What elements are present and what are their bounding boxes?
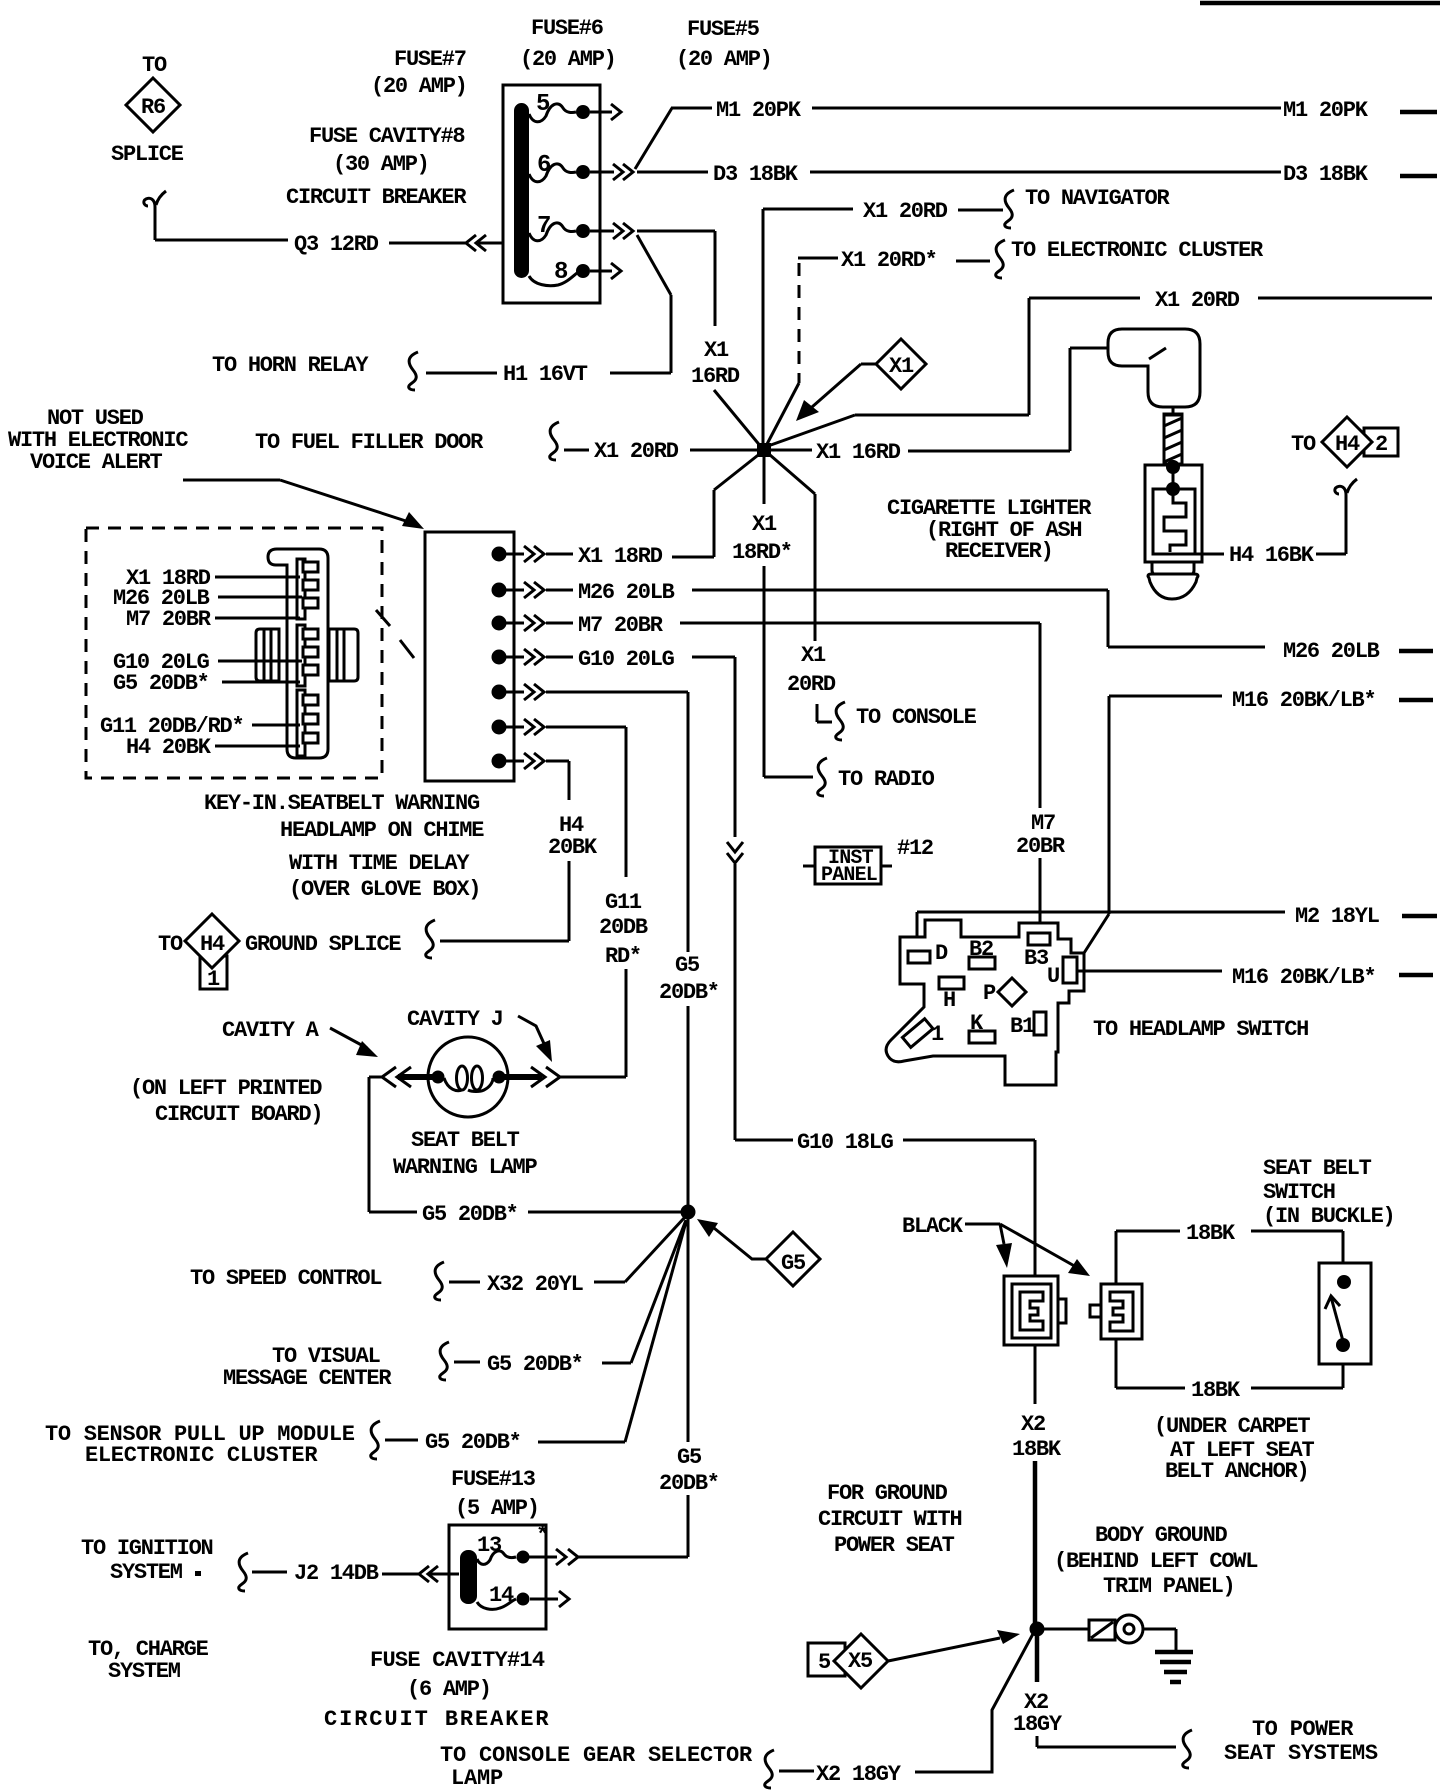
fuse 7	[529, 213, 633, 241]
svg-text:TO POWER: TO POWER	[1252, 1717, 1354, 1742]
dashed leader between box and connector	[376, 610, 390, 626]
svg-text:SEAT BELT: SEAT BELT	[411, 1128, 520, 1153]
svg-text:G5 20DB*: G5 20DB*	[422, 1202, 518, 1227]
svg-text:U: U	[1047, 964, 1059, 989]
svg-text:M7 20BR: M7 20BR	[578, 613, 664, 638]
svg-text:20BR: 20BR	[1016, 834, 1066, 859]
svg-text:SPLICE: SPLICE	[111, 142, 184, 167]
wire M16 20BK/LB* (lower) from U	[1077, 965, 1433, 990]
svg-text:M16 20BK/LB*: M16 20BK/LB*	[1232, 688, 1375, 713]
svg-text:X1 16RD: X1 16RD	[816, 440, 901, 465]
wire X1 20RD* to electronic cluster (dashed)	[766, 238, 1264, 446]
svg-text:M7: M7	[1031, 811, 1055, 836]
wire X1 20RD to navigator	[763, 186, 1170, 444]
svg-text:G5: G5	[677, 1445, 702, 1470]
svg-text:5: 5	[818, 1650, 831, 1675]
svg-text:FUSE CAVITY#8: FUSE CAVITY#8	[309, 124, 465, 149]
svg-text:POWER SEAT: POWER SEAT	[834, 1533, 955, 1558]
wire Q3 12RD to splice R6 (hook + leads)	[144, 191, 166, 218]
svg-text:G5 20DB*: G5 20DB*	[113, 671, 209, 696]
svg-text:RECEIVER): RECEIVER)	[945, 539, 1053, 564]
wire X32 20YL to speed control	[190, 1217, 685, 1300]
svg-text:M2 18YL: M2 18YL	[1295, 904, 1380, 929]
svg-text:BODY GROUND: BODY GROUND	[1095, 1523, 1228, 1548]
wire X1 18RD (pin 1 to junction)	[546, 452, 762, 569]
node G5 (junction)	[681, 1205, 696, 1220]
svg-text:CIRCUIT BREAKER: CIRCUIT BREAKER	[286, 185, 467, 210]
svg-text:G11: G11	[605, 890, 642, 915]
svg-text:X2: X2	[1021, 1412, 1045, 1437]
terminal B2	[969, 957, 995, 969]
pin 7	[492, 754, 507, 769]
wire G11 20DB/RD* (pin 6 down to lamp)	[546, 727, 648, 1077]
wire X2 18BK through connector	[1012, 1345, 1062, 1626]
svg-text:TO NAVIGATOR: TO NAVIGATOR	[1025, 186, 1170, 211]
svg-text:TO ELECTRONIC CLUSTER: TO ELECTRONIC CLUSTER	[1011, 238, 1264, 263]
fuse block (fuse 13, cavity 14)	[449, 1525, 546, 1629]
svg-text:D3 18BK: D3 18BK	[713, 162, 799, 187]
svg-text:X1: X1	[801, 643, 826, 668]
page border top right	[1200, 1, 1440, 6]
terminal K	[969, 1031, 995, 1043]
pin 5	[492, 685, 507, 700]
wire H4 16BK	[1194, 479, 1357, 568]
svg-text:18BK: 18BK	[1012, 1437, 1062, 1462]
svg-text:ELECTRONIC CLUSTER: ELECTRONIC CLUSTER	[85, 1443, 318, 1468]
svg-text:D: D	[935, 941, 948, 966]
wire D3 18BK	[637, 162, 1437, 187]
wire M7 20BR (pin 3 to headlamp switch B3)	[546, 613, 1066, 934]
pin 3	[492, 616, 507, 631]
svg-text:G5: G5	[675, 953, 700, 978]
svg-text:BLACK: BLACK	[902, 1214, 964, 1239]
svg-text:G5 20DB*: G5 20DB*	[487, 1352, 583, 1377]
svg-text:(20 AMP): (20 AMP)	[520, 47, 616, 72]
svg-text:SEAT SYSTEMS: SEAT SYSTEMS	[1224, 1741, 1378, 1766]
pin 4	[492, 650, 507, 665]
wire X1 16RD to cigarette lighter	[771, 348, 1110, 465]
connector half 2	[1090, 1284, 1142, 1339]
svg-text:D3 18BK: D3 18BK	[1283, 162, 1369, 187]
svg-text:20BK: 20BK	[548, 835, 598, 860]
svg-text:X2 18GY: X2 18GY	[816, 1762, 902, 1787]
wire J2 14DB to ignition system	[81, 1536, 459, 1591]
terminal P	[998, 978, 1026, 1006]
svg-text:FOR GROUND: FOR GROUND	[827, 1481, 948, 1506]
wire X2 18GY to console gear selector lamp	[440, 1632, 1034, 1790]
svg-text:SWITCH: SWITCH	[1263, 1180, 1335, 1205]
svg-text:M1 20PK: M1 20PK	[716, 98, 802, 123]
svg-text:M7 20BR: M7 20BR	[126, 607, 212, 632]
wire M2 18YL from headlamp switch D	[917, 904, 1437, 951]
svg-text:H: H	[943, 988, 955, 1013]
svg-text:B1: B1	[1010, 1014, 1035, 1039]
wire M1 20PK	[635, 98, 1437, 169]
body ground symbol	[1044, 1615, 1193, 1682]
svg-text:X1: X1	[889, 354, 914, 379]
terminal B1	[1034, 1012, 1046, 1035]
svg-text:X1 20RD: X1 20RD	[863, 199, 948, 224]
svg-text:H4: H4	[1335, 432, 1360, 457]
svg-text:J2 14DB: J2 14DB	[294, 1561, 379, 1586]
svg-text:TO CONSOLE: TO CONSOLE	[856, 705, 977, 730]
note: not used with electronic voice alert	[8, 406, 424, 529]
svg-text:18GY: 18GY	[1013, 1712, 1063, 1737]
bus bar	[514, 103, 529, 278]
svg-text:TO HEADLAMP SWITCH: TO HEADLAMP SWITCH	[1093, 1017, 1308, 1042]
svg-text:X32 20YL: X32 20YL	[487, 1272, 584, 1297]
svg-text:SEAT BELT: SEAT BELT	[1263, 1156, 1372, 1181]
wire 18BK (lower) from switch	[1116, 1339, 1343, 1403]
terminal D	[908, 951, 930, 963]
svg-text:20DB: 20DB	[599, 915, 648, 940]
splice X5 cavity 5	[808, 1630, 1020, 1688]
lighter body	[1145, 465, 1202, 562]
fuse cavity 14	[477, 1583, 569, 1609]
svg-text:KEY-IN.SEATBELT WARNING: KEY-IN.SEATBELT WARNING	[204, 791, 480, 816]
svg-text:P: P	[983, 981, 996, 1006]
svg-text:1: 1	[931, 1022, 944, 1047]
note BLACK with arrows to connectors	[902, 1214, 1090, 1276]
svg-text:Q3 12RD: Q3 12RD	[294, 232, 379, 257]
svg-text:G10 20LG: G10 20LG	[578, 647, 675, 672]
ground splice H4	[158, 914, 401, 992]
svg-text:CAVITY J: CAVITY J	[407, 1007, 503, 1032]
svg-text:(5 AMP): (5 AMP)	[455, 1496, 539, 1521]
svg-text:M16 20BK/LB*: M16 20BK/LB*	[1232, 965, 1375, 990]
terminal 1	[902, 1019, 933, 1048]
svg-text:TO FUEL FILLER DOOR: TO FUEL FILLER DOOR	[255, 430, 484, 455]
svg-text:H4: H4	[200, 932, 225, 957]
pin 6	[492, 720, 507, 735]
svg-text:BELT ANCHOR): BELT ANCHOR)	[1165, 1459, 1308, 1484]
svg-text:20RD: 20RD	[787, 672, 836, 697]
svg-text:(ON LEFT PRINTED: (ON LEFT PRINTED	[130, 1076, 322, 1101]
wire G5 20DB* junction to fuse 13	[659, 1219, 719, 1557]
svg-text:FUSE#7: FUSE#7	[394, 47, 466, 72]
svg-text:(OVER GLOVE BOX): (OVER GLOVE BOX)	[289, 877, 480, 902]
svg-text:K: K	[970, 1011, 984, 1036]
pin 2	[492, 583, 507, 598]
cigarette lighter component	[887, 329, 1202, 599]
lock block right	[329, 629, 358, 681]
svg-text:(20 AMP): (20 AMP)	[676, 47, 772, 72]
svg-text:SYSTEM: SYSTEM	[108, 1659, 181, 1684]
splice H4 cavity 2	[1291, 417, 1398, 467]
svg-text:MESSAGE CENTER: MESSAGE CENTER	[223, 1366, 392, 1391]
wire X1 20RD to console	[770, 455, 977, 740]
terminal B3	[1028, 933, 1050, 945]
instrument panel connector #12	[803, 836, 933, 887]
svg-text:13: 13	[477, 1533, 502, 1558]
svg-text:B3: B3	[1024, 946, 1049, 971]
svg-text:H4 16BK: H4 16BK	[1229, 543, 1315, 568]
wire X1 20RD to fuel filler door	[255, 422, 757, 464]
svg-text:FUSE CAVITY#14: FUSE CAVITY#14	[370, 1648, 545, 1673]
seat belt warning lamp	[130, 1007, 626, 1180]
fuse cavity 8	[529, 259, 621, 286]
wire G10 18LG	[735, 1130, 1035, 1277]
svg-text:18RD*: 18RD*	[732, 540, 792, 565]
svg-text:HEADLAMP ON CHIME: HEADLAMP ON CHIME	[280, 818, 484, 843]
svg-text:WITH TIME DELAY: WITH TIME DELAY	[289, 851, 470, 876]
wire X1 16RD from fuse 7	[637, 231, 762, 448]
wire X2 18GY to power seat systems	[1013, 1636, 1378, 1768]
svg-text:20DB*: 20DB*	[659, 1471, 719, 1496]
splice arrow X1	[796, 339, 926, 421]
svg-text:16RD: 16RD	[691, 364, 740, 389]
pin 1	[492, 547, 507, 562]
svg-text:(BEHIND LEFT COWL: (BEHIND LEFT COWL	[1054, 1549, 1258, 1574]
svg-text:1: 1	[207, 967, 220, 992]
svg-text:(6 AMP): (6 AMP)	[407, 1677, 491, 1702]
svg-text:18BK: 18BK	[1191, 1378, 1241, 1403]
svg-text:CAVITY A: CAVITY A	[222, 1018, 320, 1043]
svg-text:18BK: 18BK	[1186, 1221, 1236, 1246]
chime module connector (pin header)	[425, 532, 514, 781]
svg-text:(30 AMP): (30 AMP)	[333, 152, 429, 177]
svg-text:TO HORN RELAY: TO HORN RELAY	[212, 353, 369, 378]
svg-text:TO: TO	[142, 53, 167, 78]
connector arrows into circuit breaker cavity 8	[466, 235, 476, 251]
svg-text:X1 20RD: X1 20RD	[1155, 288, 1240, 313]
svg-text:6: 6	[537, 152, 551, 179]
connector (black) half 1	[1004, 1276, 1066, 1345]
wire G10 20LG (pin 4 down)	[546, 647, 743, 1140]
wire to radio	[764, 758, 935, 796]
svg-text:GROUND SPLICE: GROUND SPLICE	[245, 932, 401, 957]
svg-text:H4 20BK: H4 20BK	[126, 735, 212, 760]
svg-text:FUSE#5: FUSE#5	[687, 17, 760, 42]
svg-text:TO RADIO: TO RADIO	[838, 767, 935, 792]
svg-text:WARNING LAMP: WARNING LAMP	[393, 1155, 537, 1180]
svg-text:X1 18RD: X1 18RD	[578, 544, 663, 569]
svg-text:TO SPEED CONTROL: TO SPEED CONTROL	[190, 1266, 382, 1291]
connector side-view inside dashed box	[256, 549, 358, 758]
wire G5 20DB* from lamp to junction	[369, 1077, 682, 1227]
svg-text:H1 16VT: H1 16VT	[503, 362, 588, 387]
svg-text:TRIM PANEL): TRIM PANEL)	[1103, 1574, 1234, 1599]
svg-text:X5: X5	[848, 1649, 873, 1674]
seat belt switch component	[1319, 1263, 1371, 1364]
svg-text:#12: #12	[897, 836, 933, 861]
svg-text:X1 20RD*: X1 20RD*	[841, 248, 937, 273]
wire X1 20RD (long, right edge)	[768, 288, 1432, 446]
lighter handle	[1108, 329, 1200, 407]
svg-text:TO: TO	[1291, 432, 1316, 457]
wire G5 20DB* to visual message center	[223, 1220, 686, 1391]
svg-text:X1: X1	[704, 338, 729, 363]
headlamp switch body	[886, 920, 1084, 1085]
svg-text:(UNDER CARPET: (UNDER CARPET	[1154, 1414, 1310, 1439]
svg-text:(IN BUCKLE): (IN BUCKLE)	[1263, 1204, 1394, 1229]
node X2 body ground junction	[1030, 1622, 1045, 1637]
svg-text:CIRCUIT BOARD): CIRCUIT BOARD)	[155, 1102, 322, 1127]
chime module detail (dashed box)	[86, 528, 382, 778]
wire 18BK (upper) to switch	[1116, 1221, 1343, 1284]
splice arrow G5	[697, 1219, 820, 1286]
terminal H	[939, 977, 964, 989]
wire H1 16VT to horn relay	[212, 235, 671, 390]
wire X1 18RD* (below junction)	[732, 457, 792, 777]
wire G5 20DB* (pin 5 down to junction)	[546, 692, 719, 1206]
fuse 13	[477, 1523, 688, 1565]
svg-text:G10 18LG: G10 18LG	[797, 1130, 894, 1155]
svg-text:*: *	[536, 1523, 548, 1548]
fuse 5	[529, 91, 621, 122]
svg-text:PANEL: PANEL	[821, 864, 877, 887]
svg-text:B2: B2	[969, 937, 993, 962]
svg-text:CIRCUIT WITH: CIRCUIT WITH	[818, 1507, 961, 1532]
heating element	[1164, 496, 1186, 552]
svg-text:M26 20LB: M26 20LB	[578, 580, 675, 605]
svg-text:TO: TO	[158, 932, 183, 957]
svg-text:X1: X1	[752, 512, 777, 537]
svg-text:SYSTEM: SYSTEM	[110, 1560, 183, 1585]
svg-text:M1 20PK: M1 20PK	[1283, 98, 1369, 123]
svg-text:R6: R6	[141, 95, 165, 120]
svg-text:CIRCUIT BREAKER: CIRCUIT BREAKER	[324, 1707, 551, 1732]
svg-text:X1 20RD: X1 20RD	[594, 439, 679, 464]
svg-text:TO CONSOLE GEAR SELECTOR: TO CONSOLE GEAR SELECTOR	[440, 1743, 753, 1768]
lighter base	[1152, 562, 1194, 576]
svg-text:VOICE ALERT: VOICE ALERT	[30, 450, 163, 475]
svg-text:TO IGNITION: TO IGNITION	[81, 1536, 213, 1561]
lighter shaft (hatched)	[1164, 414, 1182, 464]
wire G5 20DB* to sensor pull up module	[45, 1222, 686, 1468]
svg-text:20DB*: 20DB*	[659, 980, 719, 1005]
svg-text:M26 20LB: M26 20LB	[1283, 639, 1380, 664]
svg-text:FUSE#13: FUSE#13	[451, 1467, 536, 1492]
svg-text:RD*: RD*	[605, 944, 641, 969]
fuse 6	[529, 152, 633, 182]
fuse block (fuses 5,6,7, cavity 8)	[503, 85, 600, 303]
terminal U	[1063, 957, 1077, 983]
lock block left	[256, 629, 279, 681]
splice R6 callout	[111, 53, 184, 167]
svg-text:(20 AMP): (20 AMP)	[371, 74, 467, 99]
svg-text:FUSE#6: FUSE#6	[531, 16, 603, 41]
wire H4 20BK (pin 7 to ground splice)	[426, 761, 598, 958]
svg-text:G5: G5	[781, 1251, 806, 1276]
wire M16 20BK/LB* (upper) to headlamp switch U	[1084, 688, 1433, 953]
svg-text:G5 20DB*: G5 20DB*	[425, 1430, 521, 1455]
wire M26 20LB (pin 2 to right edge)	[546, 580, 1433, 664]
svg-text:LAMP: LAMP	[451, 1766, 503, 1790]
svg-text:2: 2	[1375, 432, 1387, 457]
node X1 (main splice junction)	[757, 443, 771, 457]
